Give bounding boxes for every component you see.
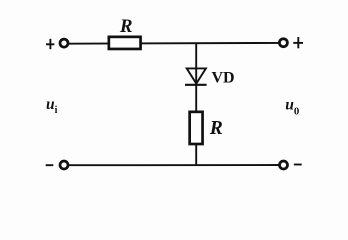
wire bottom rail (64, 164, 284, 166)
polarity - bottom-left (46, 164, 54, 166)
terminal bottom-left (60, 161, 68, 169)
resistor R2 shunt (190, 112, 203, 144)
polarity + top-left (46, 39, 54, 49)
wire shunt branch (195, 43, 197, 165)
terminal bottom-right (280, 161, 288, 169)
svg-text:VD: VD (212, 69, 235, 86)
diode VD (185, 68, 207, 84)
polarity - bottom-right (294, 164, 302, 166)
svg-text:R: R (119, 16, 133, 37)
resistor R1 series (109, 37, 141, 49)
terminal top-right (279, 39, 287, 47)
terminal top-left (60, 39, 68, 47)
svg-text:u0: u0 (285, 97, 299, 118)
svg-text:ui: ui (46, 96, 58, 116)
polarity + top-right (293, 37, 303, 48)
wire top rail (64, 42, 283, 45)
svg-text:R: R (209, 118, 223, 139)
